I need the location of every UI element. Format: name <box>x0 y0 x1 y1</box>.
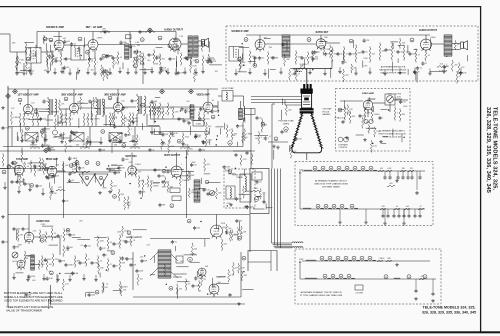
filament tube ref <box>340 204 344 208</box>
resistor <box>185 280 187 289</box>
capacitor <box>294 137 297 141</box>
wire <box>41 51 54 53</box>
svg-text:220K: 220K <box>221 223 226 225</box>
resistor <box>41 257 43 266</box>
capacitor <box>88 100 91 104</box>
svg-text:47: 47 <box>346 54 348 56</box>
wire <box>401 134 403 143</box>
resistor <box>331 48 333 61</box>
capacitor <box>68 233 71 237</box>
wire <box>228 173 236 175</box>
svg-text:.05: .05 <box>262 58 265 60</box>
interlock box <box>250 169 269 214</box>
ground <box>108 71 112 75</box>
wire <box>113 290 121 292</box>
capacitor <box>198 148 201 152</box>
capacitor <box>235 197 238 201</box>
resistor <box>370 142 372 151</box>
horiz section box bottom <box>51 303 246 305</box>
capacitor <box>58 259 61 263</box>
resistor <box>258 133 260 143</box>
contrast control <box>338 137 343 142</box>
svg-text:100: 100 <box>31 103 34 105</box>
ground <box>22 72 26 76</box>
svg-text:.05: .05 <box>54 233 57 235</box>
capacitor <box>106 54 109 58</box>
svg-text:1 MEG: 1 MEG <box>364 122 370 124</box>
wire <box>191 119 200 121</box>
svg-text:33K: 33K <box>181 118 185 120</box>
svg-text:2.2K: 2.2K <box>192 109 197 111</box>
svg-text:220K: 220K <box>388 94 393 96</box>
wire <box>286 41 288 52</box>
svg-text:500: 500 <box>194 248 197 250</box>
wire <box>132 252 134 290</box>
svg-text:33K: 33K <box>155 64 159 66</box>
svg-text:33K: 33K <box>122 263 126 265</box>
ground <box>98 191 102 195</box>
svg-text:.01: .01 <box>427 55 430 57</box>
svg-text:.002: .002 <box>55 49 59 51</box>
wire <box>181 43 188 45</box>
wire filament chain A2 <box>300 208 425 210</box>
ground <box>17 190 21 194</box>
wire <box>125 172 127 178</box>
sound IF transformer T104 <box>229 47 243 62</box>
resistor <box>25 44 27 53</box>
svg-text:33K: 33K <box>353 68 357 70</box>
wire <box>239 46 249 48</box>
resistor <box>32 115 34 125</box>
svg-text:.05: .05 <box>199 290 202 292</box>
svg-text:12K: 12K <box>215 71 219 73</box>
filament tube ref <box>329 166 333 170</box>
svg-text:.01: .01 <box>152 149 155 151</box>
capacitor <box>129 45 132 49</box>
deflection yoke H coil <box>292 242 303 243</box>
svg-text:47: 47 <box>418 55 420 57</box>
svg-text:47: 47 <box>345 62 347 64</box>
svg-text:220K: 220K <box>47 259 52 261</box>
svg-text:500: 500 <box>190 149 193 151</box>
capacitor <box>27 275 30 279</box>
wire <box>395 98 402 100</box>
resistor <box>149 104 151 114</box>
ground <box>26 278 30 282</box>
wire <box>270 251 272 272</box>
ref <box>102 54 106 58</box>
wire <box>92 32 94 40</box>
ref <box>127 231 131 235</box>
svg-text:150K: 150K <box>139 270 144 272</box>
trans winding <box>226 186 235 199</box>
svg-text:1 MEG: 1 MEG <box>153 186 159 188</box>
tube V117 <box>17 260 25 270</box>
wire <box>198 40 201 42</box>
svg-text:1 MEG: 1 MEG <box>174 40 180 42</box>
svg-text:2.2K: 2.2K <box>55 164 60 166</box>
damping resistor box <box>25 133 38 142</box>
electrolytic pair <box>364 119 368 123</box>
wire <box>265 203 267 209</box>
resistor <box>142 54 144 64</box>
wire <box>90 111 92 120</box>
resistor <box>118 190 120 199</box>
pot 1000 <box>53 130 58 135</box>
wire <box>373 102 385 104</box>
ground <box>15 72 19 76</box>
wire <box>270 68 276 70</box>
wire <box>356 134 364 136</box>
wire <box>25 254 34 256</box>
ground <box>158 71 162 75</box>
wire <box>280 110 282 121</box>
capacitor <box>194 134 197 138</box>
ref picture tube <box>284 127 288 131</box>
capacitor <box>103 30 106 34</box>
svg-text:220K: 220K <box>227 203 232 205</box>
resistor <box>312 54 314 60</box>
tube V104 sound IF amp alt <box>255 40 265 52</box>
svg-text:150K: 150K <box>192 66 197 68</box>
resistor <box>142 181 144 189</box>
svg-text:.1: .1 <box>130 201 132 203</box>
svg-text:.01: .01 <box>63 134 66 136</box>
svg-text:.005: .005 <box>32 55 36 57</box>
box resistor on bus <box>126 35 132 39</box>
capacitor <box>336 52 339 56</box>
sound IF transformer T101 <box>26 48 41 64</box>
filter choke L101 <box>125 44 130 59</box>
resistor <box>159 55 161 64</box>
svg-text:68K: 68K <box>12 43 16 45</box>
ground <box>383 222 387 226</box>
ground <box>28 188 32 192</box>
svg-text:.1: .1 <box>107 71 109 73</box>
capacitor <box>148 148 151 152</box>
svg-text:HORIZ OSC: HORIZ OSC <box>36 220 50 223</box>
wire <box>264 37 271 39</box>
ground <box>308 71 312 75</box>
resistor <box>368 126 370 132</box>
svg-text:115V: 115V <box>299 259 304 261</box>
capacitor <box>236 124 239 128</box>
capacitor <box>125 257 128 261</box>
capacitor <box>184 56 187 60</box>
ground <box>237 302 241 306</box>
resistor <box>343 48 345 61</box>
resistor box <box>172 196 181 201</box>
resistor <box>56 189 65 191</box>
svg-text:10K: 10K <box>81 168 85 170</box>
ref <box>141 103 145 107</box>
resistor <box>205 124 207 131</box>
resistor <box>121 114 123 124</box>
capacitor <box>88 293 91 297</box>
svg-text:33K: 33K <box>144 260 148 262</box>
ground <box>68 72 72 76</box>
svg-text:12K: 12K <box>72 234 76 236</box>
resistor <box>34 167 36 175</box>
capacitor <box>56 234 59 238</box>
wire <box>248 60 256 62</box>
ground <box>44 138 48 142</box>
svg-text:100: 100 <box>115 57 118 59</box>
svg-text:.05: .05 <box>203 279 206 281</box>
flyback leads <box>150 252 178 278</box>
test point left <box>6 94 11 99</box>
wire <box>84 292 86 297</box>
svg-text:.002: .002 <box>136 61 140 63</box>
wire <box>432 43 445 45</box>
capacitor <box>410 176 413 180</box>
filament coil <box>341 259 344 262</box>
resistor T choke <box>437 66 448 68</box>
wire <box>224 123 226 130</box>
wire <box>392 129 394 136</box>
wire <box>21 148 23 154</box>
svg-text:100: 100 <box>70 247 73 249</box>
svg-text:326, 328, 329, 335, 336, 340,: 326, 328, 329, 335, 336, 340, 345 <box>422 311 476 315</box>
ground <box>12 276 16 280</box>
wire <box>94 173 96 183</box>
capacitor <box>194 135 197 139</box>
filament tube ref <box>345 166 349 170</box>
capacitor <box>459 71 462 75</box>
capacitor <box>194 276 197 280</box>
dashed box filament circuit B <box>295 249 441 304</box>
svg-text:47: 47 <box>76 133 78 135</box>
filament coil <box>357 259 360 262</box>
wire <box>154 256 156 263</box>
wire <box>33 108 50 110</box>
filament tube ref <box>361 166 365 170</box>
resistor <box>251 190 261 192</box>
svg-text:47: 47 <box>229 130 231 132</box>
ground <box>413 71 417 75</box>
wire <box>225 170 230 172</box>
wire <box>397 58 399 63</box>
wire <box>320 40 327 42</box>
wire <box>173 38 178 40</box>
resistor <box>46 55 48 64</box>
wire <box>196 271 198 277</box>
resistor <box>52 255 54 265</box>
wire <box>16 132 18 141</box>
wire <box>65 272 76 274</box>
svg-text:.01: .01 <box>446 66 449 68</box>
resistor <box>100 66 102 75</box>
wire <box>94 50 96 60</box>
wire <box>75 102 88 104</box>
ref <box>72 163 76 167</box>
wire <box>90 140 92 145</box>
wire <box>242 288 254 290</box>
resistor <box>122 228 124 236</box>
svg-text:47: 47 <box>298 74 300 76</box>
resistor <box>193 71 195 80</box>
wire <box>107 167 119 169</box>
svg-text:47K: 47K <box>208 126 212 128</box>
svg-text:150K: 150K <box>100 240 105 242</box>
ref <box>177 139 181 143</box>
wire <box>209 128 211 135</box>
svg-text:.01: .01 <box>133 240 136 242</box>
capacitor <box>84 244 87 248</box>
resistor <box>100 31 110 33</box>
resistor <box>65 143 67 151</box>
svg-text:47: 47 <box>78 164 80 166</box>
CRT yoke bands <box>300 108 314 110</box>
resistor <box>94 59 96 67</box>
coil <box>230 188 231 198</box>
wire <box>101 99 103 106</box>
svg-text:100: 100 <box>228 228 231 230</box>
capacitor <box>255 180 258 184</box>
svg-text:12K: 12K <box>315 58 319 60</box>
tube V109 3rd video IF <box>113 102 122 113</box>
wire <box>392 43 394 49</box>
svg-text:100: 100 <box>244 137 247 139</box>
svg-text:47: 47 <box>91 58 93 60</box>
svg-text:500: 500 <box>172 136 175 138</box>
wire <box>416 171 418 190</box>
resistor <box>107 238 109 248</box>
svg-text:10K: 10K <box>172 58 176 60</box>
ground <box>174 72 178 76</box>
video amp out box <box>245 109 256 115</box>
svg-text:TELE-TONE MODELS 324, 325,: TELE-TONE MODELS 324, 325, <box>423 305 476 309</box>
resistor <box>98 265 100 273</box>
svg-text:150K: 150K <box>226 167 231 169</box>
resistor <box>290 147 292 157</box>
ground <box>263 72 267 76</box>
tube ref <box>75 161 79 165</box>
svg-text:.05: .05 <box>142 31 145 33</box>
wire <box>273 150 275 160</box>
ref <box>45 167 49 171</box>
ground <box>338 221 342 225</box>
svg-text:FOCUS: FOCUS <box>323 111 330 113</box>
capacitor <box>255 116 258 120</box>
wire <box>253 57 255 66</box>
svg-text:.1: .1 <box>106 255 108 257</box>
wire <box>36 32 38 49</box>
wire <box>212 105 218 107</box>
ground <box>183 71 187 75</box>
resistor <box>295 70 297 79</box>
svg-text:6.8K: 6.8K <box>74 273 79 275</box>
wire <box>105 115 107 126</box>
capacitor <box>121 158 124 162</box>
capacitor <box>70 42 73 46</box>
capacitor <box>63 40 66 44</box>
wire <box>89 141 102 143</box>
wire <box>58 32 60 41</box>
svg-text:150K: 150K <box>403 106 408 108</box>
capacitor <box>124 240 127 244</box>
peaking coil <box>244 106 245 120</box>
wire <box>99 273 101 278</box>
capacitor <box>228 293 231 297</box>
svg-text:.05: .05 <box>259 117 262 119</box>
svg-text:10K: 10K <box>372 54 376 56</box>
wire <box>156 46 163 48</box>
capacitor <box>193 226 196 230</box>
svg-text:1 MEG: 1 MEG <box>430 37 436 39</box>
capacitor <box>402 214 405 218</box>
wire <box>208 41 210 52</box>
wire <box>218 226 220 230</box>
capacitor <box>177 71 180 75</box>
resistor <box>138 177 140 186</box>
svg-text:.002: .002 <box>232 135 236 137</box>
svg-text:12K: 12K <box>410 168 414 170</box>
resistor <box>190 62 192 71</box>
ground <box>354 72 358 76</box>
wire <box>209 64 222 66</box>
svg-text:10K: 10K <box>165 134 169 136</box>
resistor <box>187 146 189 154</box>
capacitor <box>191 284 194 288</box>
svg-text:150K: 150K <box>18 244 23 246</box>
resistor <box>162 110 164 118</box>
svg-text:1 MEG: 1 MEG <box>13 117 19 119</box>
wire <box>45 43 47 50</box>
wire <box>240 101 242 108</box>
wire <box>173 276 182 278</box>
capacitor <box>415 191 418 195</box>
resistor <box>119 236 121 247</box>
resistor <box>399 40 401 48</box>
ref <box>26 126 30 130</box>
tube V113 sync amp <box>47 166 57 178</box>
wire <box>73 89 75 103</box>
wire <box>59 108 69 110</box>
resistor <box>349 112 351 122</box>
svg-text:.05: .05 <box>26 166 29 168</box>
svg-text:500: 500 <box>67 41 70 43</box>
wire <box>50 62 52 71</box>
wire <box>123 106 136 108</box>
resistor <box>107 260 109 270</box>
wire <box>407 69 409 75</box>
tube V110 video amp <box>203 102 213 114</box>
svg-text:68K: 68K <box>402 114 406 116</box>
resistor <box>62 280 64 289</box>
capacitor <box>384 48 387 52</box>
wire <box>175 61 177 72</box>
capacitor <box>104 70 107 74</box>
svg-text:150K: 150K <box>91 294 96 296</box>
resistor <box>45 233 47 241</box>
wire <box>51 50 53 55</box>
IF transformer T107 <box>48 97 57 117</box>
filament tube ref <box>360 256 364 260</box>
wire <box>86 291 94 293</box>
ground <box>82 277 86 281</box>
resistor <box>239 62 241 71</box>
svg-text:1 MEG: 1 MEG <box>97 38 103 40</box>
wire <box>91 101 93 112</box>
svg-text:6.8K: 6.8K <box>103 187 108 189</box>
svg-text:1000: 1000 <box>53 137 58 139</box>
resistor <box>198 282 200 290</box>
capacitor <box>133 50 136 54</box>
svg-text:12K: 12K <box>179 288 183 290</box>
svg-text:33K: 33K <box>134 100 138 102</box>
svg-text:1 MEG: 1 MEG <box>198 278 204 280</box>
